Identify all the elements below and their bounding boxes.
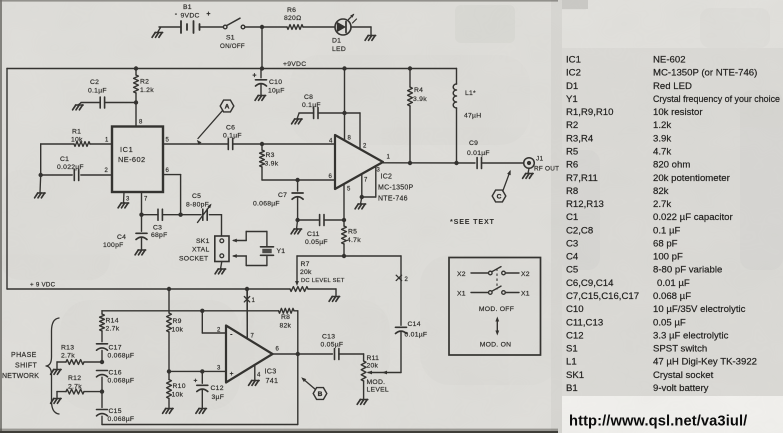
capacitor C4 (103, 215, 147, 249)
svg-text:D1: D1 (566, 81, 578, 92)
node rail IC2 feed (342, 66, 346, 70)
wire R2 to IC1 pin8 (135, 103, 137, 127)
svg-text:C4: C4 (566, 252, 579, 263)
svg-text:3.3 µF electrolytic: 3.3 µF electrolytic (653, 330, 729, 341)
svg-text:9-volt battery: 9-volt battery (653, 383, 709, 394)
resistor R1 (71, 129, 112, 147)
op-amp IC3 741 (217, 326, 280, 386)
node L1 out (454, 161, 458, 165)
wire IC2 pin7 down (361, 174, 363, 197)
svg-text:B1: B1 (566, 383, 578, 394)
svg-text:3µF: 3µF (212, 394, 225, 401)
svg-text:6: 6 (166, 168, 170, 174)
svg-text:R3: R3 (266, 152, 275, 159)
svg-text:741: 741 (266, 376, 279, 385)
svg-text:J1: J1 (536, 156, 543, 163)
ground at SK1 (215, 262, 226, 274)
svg-text:ON/OFF: ON/OFF (220, 43, 245, 50)
svg-text:+: + (252, 73, 256, 80)
op-amp U1 IC1 NE-602 (105, 120, 170, 203)
crystal socket SK1 (179, 236, 229, 263)
svg-text:1.2k: 1.2k (140, 87, 154, 94)
inductor L1 (453, 69, 481, 164)
svg-text:C3: C3 (153, 225, 162, 232)
svg-text:4: 4 (257, 373, 261, 379)
svg-text:R2: R2 (140, 79, 149, 86)
svg-text:MOD. ON: MOD. ON (480, 342, 512, 349)
phase shift brace (2, 318, 59, 414)
ground at IC1 pin3 (118, 192, 129, 208)
ground at C10 (255, 96, 266, 101)
svg-text:X1: X1 (521, 291, 530, 298)
svg-text:MOD.: MOD. (367, 379, 386, 386)
wire feedback line B (102, 310, 279, 312)
node R4 out (408, 161, 412, 165)
svg-text:IC1: IC1 (566, 55, 581, 66)
capacitor C12 (193, 371, 224, 407)
ground at R7 (329, 297, 340, 302)
capacitor C13 (321, 334, 344, 360)
svg-text:10k: 10k (172, 327, 184, 334)
ground at J1 (523, 168, 534, 178)
capacitor C2 (81, 79, 136, 108)
svg-text:2.7k: 2.7k (68, 384, 82, 391)
svg-text:1: 1 (105, 138, 109, 144)
svg-text:1.2k: 1.2k (653, 120, 671, 131)
svg-text:-: - (175, 11, 178, 18)
svg-text:C11,C13: C11,C13 (566, 317, 603, 328)
capacitor C9 (467, 140, 490, 169)
svg-text:Crystal socket: Crystal socket (653, 370, 714, 381)
svg-text:-: - (230, 330, 233, 339)
svg-text:100pF: 100pF (103, 242, 124, 249)
svg-text:2: 2 (363, 144, 367, 150)
svg-text:C3: C3 (566, 239, 578, 250)
svg-text:10k: 10k (71, 137, 83, 144)
capacitor C11 (298, 215, 344, 247)
see text note (450, 217, 495, 226)
ground at C8 (292, 113, 303, 124)
svg-text:X2: X2 (521, 271, 530, 278)
svg-text:+9VDC: +9VDC (283, 61, 306, 68)
ground at R12 (51, 399, 62, 404)
wire C13 to R11 (339, 354, 364, 361)
capacitor C16 (97, 370, 135, 392)
svg-text:3: 3 (126, 197, 130, 203)
wire C6 to IC2 pin4 (233, 143, 335, 145)
svg-text:3.9k: 3.9k (653, 133, 671, 144)
svg-text:20k: 20k (300, 269, 312, 276)
ground at IC3 pin4 (249, 381, 260, 386)
svg-text:3: 3 (217, 366, 221, 372)
ground at C7/C11 (291, 220, 302, 234)
wire +9VDC rail (7, 61, 457, 69)
svg-text:B1: B1 (183, 4, 192, 11)
svg-text:0.068 µF: 0.068 µF (653, 291, 691, 302)
wire D1 to ground (351, 27, 371, 35)
node lower R9 (167, 287, 171, 291)
wire R7 wiper (295, 256, 345, 286)
svg-text:C17: C17 (109, 345, 122, 352)
svg-text:8-80 pF variable: 8-80 pF variable (653, 265, 722, 276)
svg-text:C12: C12 (211, 385, 224, 392)
node IC2 gnd (360, 195, 364, 199)
svg-text:R8: R8 (566, 186, 578, 197)
ground at R10 (163, 409, 174, 414)
svg-text:3.9k: 3.9k (265, 161, 279, 168)
wire pin3 line (169, 370, 226, 372)
svg-text:0.068µF: 0.068µF (108, 416, 135, 423)
svg-text:6: 6 (276, 347, 280, 353)
svg-text:47µH: 47µH (464, 113, 481, 120)
node switch/rail feed (260, 25, 264, 29)
node C11/R5/pin5 (342, 218, 346, 222)
svg-text:3.9k: 3.9k (413, 96, 427, 103)
svg-text:R6: R6 (566, 160, 578, 171)
ground at C4 (135, 250, 146, 255)
svg-text:R4: R4 (414, 87, 423, 94)
resistor R8 (279, 308, 298, 354)
svg-text:C6,C9,C14: C6,C9,C14 (566, 278, 614, 289)
node IC3 out (296, 352, 300, 356)
node C7/C11/gnd (295, 218, 299, 222)
svg-text:NETWORK: NETWORK (2, 373, 39, 380)
svg-text:C4: C4 (117, 234, 126, 241)
svg-text:C6: C6 (226, 125, 235, 132)
svg-text:C1: C1 (566, 212, 578, 223)
svg-text:C8: C8 (304, 94, 313, 101)
svg-text:X1: X1 (457, 291, 466, 298)
svg-text:8: 8 (139, 120, 143, 126)
svg-text:0.022 µF capacitor: 0.022 µF capacitor (653, 212, 733, 223)
svg-text:C7: C7 (278, 192, 287, 199)
svg-text:+: + (230, 371, 234, 378)
svg-text:IC3: IC3 (265, 367, 277, 376)
node C12 top (200, 369, 204, 373)
svg-text:R6: R6 (287, 7, 296, 14)
node C17/R13 (100, 360, 104, 364)
node R5 bottom (342, 254, 346, 258)
parts list (566, 55, 780, 395)
wire R1 to C1 junction (41, 144, 74, 175)
node R9/R10/pin3 (167, 369, 171, 373)
wire C5 to SK1 (221, 215, 223, 236)
svg-text:NE-602: NE-602 (118, 155, 145, 164)
svg-text:20k: 20k (367, 363, 379, 370)
ground at C2 (73, 103, 84, 110)
svg-text:LEVEL: LEVEL (367, 387, 389, 394)
svg-text:SOCKET: SOCKET (179, 256, 208, 263)
LED D1 (332, 14, 357, 53)
wire IC2 output (383, 162, 475, 164)
resistor R2 (134, 69, 155, 103)
node R2/C2 (134, 100, 138, 104)
variable capacitor C5 (181, 193, 222, 223)
wire Y1 to SK1 arrows (232, 232, 267, 266)
svg-text:R8: R8 (281, 314, 290, 321)
svg-text:R3,R4: R3,R4 (566, 133, 594, 144)
wire R7 to ground (308, 289, 336, 296)
resistor R12 (57, 375, 102, 398)
svg-text:R2: R2 (566, 120, 578, 131)
hex node A (197, 100, 234, 145)
svg-text:0.1µF: 0.1µF (223, 133, 242, 140)
svg-text:NTE-746: NTE-746 (378, 196, 408, 203)
svg-text:2: 2 (405, 277, 409, 283)
svg-text:SHIFT: SHIFT (15, 363, 38, 370)
svg-text:http://www.qsl.net/va3iul/: http://www.qsl.net/va3iul/ (569, 414, 747, 430)
svg-text:C14: C14 (408, 321, 421, 328)
svg-text:7: 7 (144, 197, 148, 203)
wire IC3 output (273, 353, 333, 355)
switch S1 (220, 18, 245, 50)
svg-text:B: B (318, 391, 323, 398)
wire switch to R6 (245, 26, 287, 28)
capacitor C7 (253, 180, 303, 220)
svg-text:+: + (193, 378, 197, 385)
svg-text:8: 8 (348, 136, 352, 142)
svg-text:R14: R14 (106, 318, 119, 325)
resistor R9 (167, 289, 184, 371)
svg-text:R13: R13 (61, 345, 74, 352)
resistor R14 (100, 311, 120, 342)
connector J1 (524, 156, 560, 173)
svg-text:R11: R11 (367, 355, 380, 362)
svg-text:MOD. OFF: MOD. OFF (479, 306, 514, 313)
svg-text:10k resistor: 10k resistor (653, 107, 703, 118)
svg-text:LED: LED (332, 46, 346, 53)
capacitor C17 (97, 344, 135, 362)
svg-text:0.05 µF: 0.05 µF (653, 317, 686, 328)
ground at D1 (365, 36, 376, 41)
svg-text:R5: R5 (348, 229, 357, 236)
svg-text:2.7k: 2.7k (61, 353, 75, 360)
wire IC1 pin7 to C3 node (141, 192, 143, 215)
node pin7/C3/C4 (139, 213, 143, 217)
svg-text:A: A (225, 104, 230, 111)
svg-text:DC LEVEL SET: DC LEVEL SET (301, 278, 345, 284)
wire X1 line (244, 289, 255, 338)
capacitor C1 (41, 156, 112, 181)
svg-text:XTAL: XTAL (192, 247, 210, 254)
svg-text:SPST switch: SPST switch (653, 344, 707, 355)
svg-text:1: 1 (252, 298, 256, 304)
wire feedback bottom (102, 354, 298, 425)
node rail R4 (408, 66, 412, 70)
ground at IC2 (355, 197, 366, 209)
svg-text:8-80pF: 8-80pF (186, 202, 209, 209)
svg-text:IC2: IC2 (381, 174, 393, 181)
svg-text:2: 2 (105, 168, 109, 174)
ground at R13 (51, 370, 62, 375)
svg-text:0.01µF: 0.01µF (467, 150, 490, 157)
amplifier IC2 MC-1350P (329, 135, 414, 203)
wire left +9V feed (6, 69, 8, 290)
wire feed to rail (261, 27, 263, 69)
svg-text:4.7k: 4.7k (653, 147, 671, 158)
resistor R4 (408, 69, 428, 164)
svg-text:0.1µF: 0.1µF (88, 88, 107, 95)
svg-text:IC1: IC1 (120, 145, 133, 154)
svg-text:R12,R13: R12,R13 (566, 199, 604, 210)
svg-text:C: C (497, 194, 502, 201)
svg-text:C2: C2 (90, 79, 99, 86)
svg-text:0.01µF: 0.01µF (405, 332, 428, 339)
svg-text:RF OUT: RF OUT (534, 166, 559, 173)
svg-text:NE-602: NE-602 (653, 55, 686, 66)
svg-text:Red LED: Red LED (653, 81, 692, 92)
svg-text:R5: R5 (566, 147, 578, 158)
svg-text:X2: X2 (457, 271, 466, 278)
svg-text:C5: C5 (192, 193, 201, 200)
node pin6/C3/C5 (178, 213, 182, 217)
svg-text:1: 1 (387, 155, 391, 161)
node rail C10 (260, 66, 264, 70)
wire pin4 gnd (254, 365, 256, 380)
svg-text:0.1 µF: 0.1 µF (653, 225, 681, 236)
svg-text:100 pF: 100 pF (653, 252, 683, 263)
svg-text:R1: R1 (72, 129, 81, 136)
svg-text:20k potentiometer: 20k potentiometer (653, 173, 731, 184)
svg-text:SK1: SK1 (196, 238, 210, 245)
svg-text:0.068µF: 0.068µF (253, 201, 280, 208)
svg-text:D1: D1 (332, 38, 341, 45)
svg-text:MC-1350P (or NTE-746): MC-1350P (or NTE-746) (653, 68, 757, 79)
svg-text:R9: R9 (173, 318, 182, 325)
node rail R2 (134, 66, 138, 70)
svg-text:820Ω: 820Ω (284, 15, 301, 22)
capacitor C10 (252, 69, 284, 95)
hex node B (301, 377, 327, 399)
wire R3 to IC2 pin6 (262, 179, 335, 181)
ground at C12 (196, 409, 207, 414)
switch X1 X2 mod box (449, 258, 541, 356)
svg-text:L1*: L1* (465, 90, 476, 97)
svg-text:C2,C8: C2,C8 (566, 225, 593, 236)
svg-text:L1: L1 (566, 357, 577, 368)
node C7 top (295, 178, 299, 182)
svg-text:68 pF: 68 pF (653, 239, 678, 250)
node C8 junction (342, 111, 346, 115)
wire level line (297, 255, 401, 257)
resistor R10 (167, 371, 186, 407)
svg-text:10µF: 10µF (268, 88, 285, 95)
wire IC1 pin5 to C6 (163, 143, 228, 145)
svg-text:C9: C9 (469, 140, 478, 147)
svg-text:C13: C13 (322, 334, 335, 341)
svg-text:0.068µF: 0.068µF (108, 353, 135, 360)
svg-text:820 ohm: 820 ohm (653, 160, 690, 171)
svg-text:S1: S1 (566, 344, 578, 355)
svg-text:0.05µF: 0.05µF (321, 342, 344, 349)
wire lower +9V line (7, 282, 290, 290)
resistor R5 (342, 220, 362, 256)
svg-text:10 µF/35V electrolytic: 10 µF/35V electrolytic (653, 304, 746, 315)
svg-text:SK1: SK1 (566, 370, 584, 381)
svg-text:4.7k: 4.7k (347, 237, 361, 244)
svg-text:C16: C16 (109, 370, 122, 377)
svg-text:R1,R9,R10: R1,R9,R10 (566, 107, 613, 118)
capacitor C3 (142, 209, 181, 239)
svg-text:Y1: Y1 (566, 94, 578, 105)
wire line B to pin2 (202, 311, 226, 333)
capacitor C6 (223, 125, 242, 150)
wire rail to IC2 pin8 (344, 69, 346, 141)
ground at R11 (357, 400, 368, 405)
ground at battery B1 (152, 28, 163, 38)
svg-text:R12: R12 (68, 375, 81, 382)
svg-text:2.7k: 2.7k (653, 199, 671, 210)
svg-text:0.01 µF: 0.01 µF (657, 278, 690, 289)
crystal Y1 (261, 247, 286, 256)
svg-text:5: 5 (166, 138, 170, 144)
svg-text:+ 9 VDC: + 9 VDC (30, 282, 56, 289)
svg-text:2.7k: 2.7k (106, 326, 120, 333)
wire R6 to D1 (303, 26, 335, 28)
svg-text:0.05µF: 0.05µF (305, 239, 328, 246)
wire IC2 pin3 down (362, 166, 376, 197)
svg-text:IC2: IC2 (566, 68, 581, 79)
svg-text:MC-1350P: MC-1350P (378, 185, 414, 192)
resistor R6 (284, 7, 303, 29)
svg-text:68pF: 68pF (151, 232, 168, 239)
ground at C1 (35, 175, 46, 198)
capacitor C8 (299, 94, 345, 119)
svg-text:0.022µF: 0.022µF (57, 164, 84, 171)
svg-text:5: 5 (347, 187, 351, 193)
resistor R3 (260, 144, 279, 180)
svg-text:+: + (206, 11, 210, 18)
node line B pin2 (200, 309, 204, 313)
svg-text:C10: C10 (566, 304, 584, 315)
svg-text:C11: C11 (307, 231, 320, 238)
wire IC2 pin5 down (343, 184, 345, 220)
resistor R13 (57, 345, 102, 369)
potentiometer R7 (290, 287, 308, 292)
wire pin7 X1 (246, 289, 248, 338)
wire X2 line upper (396, 256, 408, 325)
svg-text:82k: 82k (280, 323, 292, 330)
capacitor C14 (396, 321, 428, 339)
wire R11 wiper (367, 371, 401, 375)
battery B1 (159, 4, 223, 33)
svg-text:Y1: Y1 (277, 248, 286, 255)
node C16/R12 (100, 389, 104, 393)
svg-text:9VDC: 9VDC (181, 13, 200, 20)
svg-text:C15: C15 (109, 408, 122, 415)
url text (569, 414, 747, 430)
hex node C (492, 170, 511, 202)
wire IC1 pin6 down (163, 175, 181, 215)
svg-text:0.1µF: 0.1µF (302, 102, 321, 109)
svg-text:C5: C5 (566, 265, 578, 276)
svg-text:*SEE TEXT: *SEE TEXT (450, 217, 495, 226)
svg-text:4: 4 (329, 139, 333, 145)
svg-text:R7: R7 (301, 261, 310, 268)
wire IC2 pin2 feed (345, 113, 361, 149)
svg-text:7: 7 (251, 334, 255, 340)
svg-text:C10: C10 (269, 79, 282, 86)
svg-text:6: 6 (329, 174, 333, 180)
capacitor C15 (97, 392, 135, 425)
wire X2 line lower (400, 332, 402, 373)
svg-text:0.068µF: 0.068µF (108, 378, 135, 385)
svg-text:C12: C12 (566, 330, 584, 341)
svg-text:7: 7 (364, 178, 368, 184)
potentiometer R11 (361, 355, 389, 399)
svg-text:47 µH Digi-Key TK-3922: 47 µH Digi-Key TK-3922 (653, 357, 757, 368)
svg-text:C7,C15,C16,C17: C7,C15,C16,C17 (566, 291, 639, 302)
